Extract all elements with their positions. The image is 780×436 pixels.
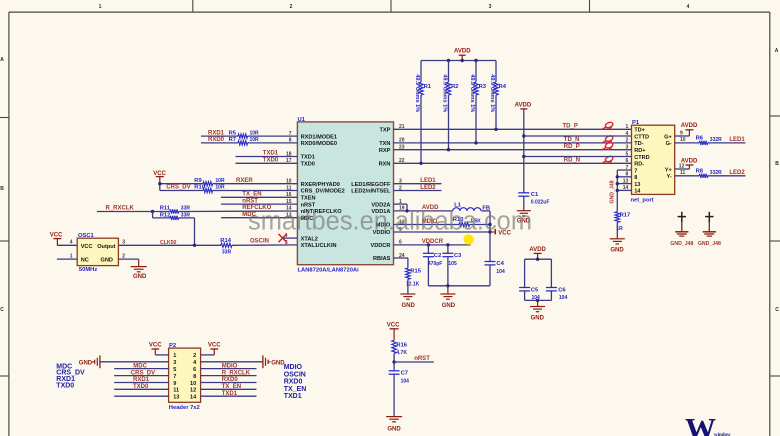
power AVDD at P1 pin9 bbox=[681, 123, 698, 136]
resistor R9 bbox=[203, 182, 213, 186]
label RXD0 at P2 bbox=[222, 377, 239, 383]
L1 value FB bbox=[482, 206, 490, 212]
svg-text:50MHz: 50MHz bbox=[79, 267, 97, 273]
svg-text:13: 13 bbox=[634, 182, 640, 188]
wire R17 to gnd bbox=[616, 222, 618, 238]
border column ticks bbox=[193, 0, 590, 12]
junction shield a bbox=[616, 175, 619, 178]
svg-text:R17: R17 bbox=[620, 212, 631, 218]
P1 left pin names bbox=[634, 128, 650, 195]
wire TXD1 bbox=[236, 156, 298, 158]
ground under R17 bbox=[610, 239, 625, 254]
svg-text:RXD1/MODE1: RXD1/MODE1 bbox=[301, 134, 337, 140]
wire pin9 stub bbox=[675, 135, 690, 137]
svg-text:14: 14 bbox=[634, 189, 641, 195]
junction R2-RXP bbox=[447, 148, 450, 151]
R8 value 332R bbox=[710, 170, 722, 176]
svg-text:470pF: 470pF bbox=[428, 261, 442, 267]
junction CTTD bbox=[522, 134, 525, 137]
svg-text:Output: Output bbox=[97, 244, 115, 250]
svg-text:W: W bbox=[685, 411, 716, 436]
R10 value 10R bbox=[215, 185, 225, 191]
svg-text:P1: P1 bbox=[632, 120, 640, 126]
label MDC bbox=[242, 212, 256, 218]
R14 value 33R bbox=[222, 250, 232, 256]
svg-text:OSCIN: OSCIN bbox=[250, 239, 269, 245]
wire P2 pin14 bbox=[201, 395, 257, 397]
svg-text:6: 6 bbox=[626, 158, 629, 164]
label R_RXCLK bbox=[106, 206, 135, 212]
svg-text:332R: 332R bbox=[710, 170, 722, 176]
ground at OSC1 bbox=[131, 267, 147, 281]
label TD_P bbox=[563, 124, 578, 130]
junction rail a bbox=[447, 59, 450, 62]
svg-text:1: 1 bbox=[626, 124, 629, 130]
R7 designator bbox=[229, 137, 236, 143]
wire TX_EN bbox=[221, 196, 297, 198]
wire R15 to gnd bbox=[407, 279, 409, 294]
R2 designator bbox=[451, 84, 458, 90]
wire REFCLKO with R11 gap bbox=[153, 210, 298, 213]
power AVDD top rail bbox=[454, 49, 471, 61]
resistor R12 bbox=[170, 216, 179, 220]
wire cap ground rail bbox=[428, 285, 490, 287]
ground left of P2 bbox=[79, 355, 100, 368]
R6 designator bbox=[696, 136, 704, 142]
svg-text:49.9 Ohms 1%: 49.9 Ohms 1% bbox=[442, 74, 448, 112]
svg-text:GND_J48: GND_J48 bbox=[609, 180, 615, 203]
svg-text:R16: R16 bbox=[396, 343, 407, 349]
wire TXN to TD_N bbox=[394, 142, 632, 144]
R13 designator bbox=[453, 217, 464, 223]
svg-text:R7: R7 bbox=[229, 137, 236, 143]
svg-text:GND: GND bbox=[610, 248, 624, 254]
svg-text:R_RXCLK: R_RXCLK bbox=[222, 370, 251, 376]
wire RXER pullup bbox=[160, 183, 298, 185]
svg-text:5: 5 bbox=[173, 367, 176, 373]
svg-text:VDDCR: VDDCR bbox=[422, 239, 444, 245]
wire LED2 stub bbox=[394, 190, 442, 192]
junction R4-TXP bbox=[494, 128, 497, 131]
svg-text:1: 1 bbox=[99, 4, 102, 10]
wire OSC1 pin4 bbox=[57, 244, 77, 246]
wire OSCIN into XTAL1 bbox=[232, 244, 298, 246]
resistor R7 bbox=[238, 141, 248, 145]
wire RBIAS bbox=[394, 258, 408, 268]
label MDIO at P2 bbox=[222, 363, 238, 369]
label nRST net bbox=[414, 356, 430, 362]
C3 designator bbox=[454, 253, 462, 259]
resistor R1 bbox=[419, 61, 424, 164]
svg-text:Y-: Y- bbox=[667, 174, 672, 180]
wire RXD0 with series resistor gap bbox=[201, 142, 297, 144]
svg-text:TXD0: TXD0 bbox=[56, 383, 74, 390]
label RD_P bbox=[564, 144, 580, 150]
wire TXD0 bbox=[236, 162, 298, 164]
wire center tap vertical bbox=[523, 136, 525, 193]
capacitor C1 bbox=[518, 193, 529, 196]
svg-text:2: 2 bbox=[122, 253, 125, 259]
svg-text:VCC: VCC bbox=[149, 343, 162, 349]
wire LED1 stub bbox=[394, 183, 442, 185]
wire P2 pin9 bbox=[114, 382, 168, 384]
svg-text:RXER/PHYAD0: RXER/PHYAD0 bbox=[301, 182, 340, 188]
wire C1 to gnd bbox=[523, 196, 525, 210]
svg-text:AVDD: AVDD bbox=[681, 123, 698, 129]
svg-text:3: 3 bbox=[173, 360, 176, 366]
ferrite loop on TD_P bbox=[602, 121, 614, 129]
wire L1 to VCC node bbox=[482, 211, 491, 232]
capacitor C6 bbox=[546, 259, 557, 300]
svg-text:C4: C4 bbox=[496, 261, 504, 267]
wire CLK50 from OSC output bbox=[118, 244, 220, 246]
svg-text:49.9 Ohms 1%: 49.9 Ohms 1% bbox=[414, 74, 420, 112]
ground under C7 bbox=[386, 417, 402, 433]
svg-text:10: 10 bbox=[190, 381, 196, 387]
resistor R11 bbox=[170, 209, 179, 213]
power AVDD at P1 pin12 bbox=[681, 158, 698, 169]
svg-text:8: 8 bbox=[193, 374, 196, 380]
P1 left pin numbers bbox=[623, 124, 629, 191]
svg-text:RXP: RXP bbox=[379, 148, 391, 154]
wire R12 down to clock net bbox=[194, 218, 196, 245]
svg-text:2: 2 bbox=[290, 4, 293, 10]
watermark smartbes bbox=[248, 207, 532, 235]
label RD_N bbox=[564, 158, 580, 164]
svg-text:6: 6 bbox=[193, 367, 196, 373]
C4 designator bbox=[496, 261, 504, 267]
wire MDC stub bbox=[221, 217, 297, 219]
svg-text:TXD0: TXD0 bbox=[301, 162, 315, 168]
resistor R10 bbox=[203, 188, 213, 192]
svg-text:NC: NC bbox=[81, 257, 89, 263]
junction clk node bbox=[193, 244, 196, 247]
R11 value 33R bbox=[181, 206, 191, 212]
R11 designator bbox=[160, 206, 171, 212]
svg-text:4.7K: 4.7K bbox=[396, 350, 407, 356]
junction CTRD bbox=[522, 155, 525, 158]
C5 value 104 bbox=[532, 295, 541, 301]
ferrite loop on TD_N bbox=[602, 135, 614, 143]
svg-text:GND: GND bbox=[101, 257, 113, 263]
svg-text:VDDCR: VDDCR bbox=[371, 243, 391, 249]
wire TXP to TD_P bbox=[394, 128, 632, 130]
wire OSC1 pin2 to gnd bbox=[118, 259, 138, 266]
svg-text:XTAL2: XTAL2 bbox=[301, 236, 318, 242]
R2 value 49.9 Ohms 1% bbox=[442, 74, 448, 112]
svg-text:TD-: TD- bbox=[634, 141, 643, 147]
label MDC at P2 bbox=[133, 363, 147, 369]
svg-text:LED2/nINTSEL: LED2/nINTSEL bbox=[351, 189, 391, 195]
C2 value 470pF bbox=[428, 261, 442, 267]
U1 right pin names bbox=[351, 128, 391, 263]
svg-text:smartbes.en.alibaba.com: smartbes.en.alibaba.com bbox=[248, 207, 532, 235]
svg-text:LAN8720A/LAN8720Ai: LAN8720A/LAN8720Ai bbox=[298, 268, 360, 274]
junction avdd gnd rail bbox=[536, 299, 539, 302]
svg-text:G+: G+ bbox=[664, 134, 672, 140]
svg-text:TXD0: TXD0 bbox=[263, 158, 279, 164]
label TX_EN at P2 bbox=[222, 384, 241, 390]
wire P2 pin10 bbox=[201, 382, 257, 384]
svg-text:C5: C5 bbox=[531, 287, 539, 293]
svg-text:LED2: LED2 bbox=[420, 185, 436, 191]
U1 left pin numbers bbox=[285, 131, 292, 246]
power VCC bar at VDDIO bbox=[490, 229, 512, 236]
node list right of header bbox=[284, 364, 307, 400]
capacitor C3 bbox=[442, 245, 453, 286]
wire AVDD cap rail top bbox=[525, 258, 552, 260]
C7 designator bbox=[401, 370, 408, 376]
OSC1 pin names bbox=[81, 244, 116, 263]
svg-text:CRS_DV: CRS_DV bbox=[131, 370, 155, 376]
svg-text:GND_J48: GND_J48 bbox=[698, 241, 721, 247]
capacitor C4 bbox=[485, 232, 496, 286]
label TX_EN bbox=[242, 192, 261, 198]
resistor R14 bbox=[221, 243, 232, 247]
wire P2 pin2 bbox=[201, 354, 215, 356]
OSC1 pin4 number bbox=[70, 240, 73, 246]
svg-text:14: 14 bbox=[190, 395, 197, 401]
svg-text:GND: GND bbox=[402, 303, 416, 309]
capacitor C2 bbox=[423, 245, 434, 286]
svg-text:Y+: Y+ bbox=[665, 167, 673, 173]
resistor R16 bbox=[392, 340, 397, 353]
R6 value 332R bbox=[710, 137, 722, 143]
OSC1 designator bbox=[78, 233, 95, 239]
svg-text:R15: R15 bbox=[410, 268, 421, 274]
svg-text:R11: R11 bbox=[160, 206, 171, 212]
svg-text:R9: R9 bbox=[194, 178, 202, 184]
label R_RXCLK at P2 bbox=[222, 370, 251, 376]
wire OSC1 pin1 bbox=[57, 258, 77, 260]
power VCC at P2 pin2 bbox=[208, 343, 221, 355]
wire P2 pin12 bbox=[201, 388, 257, 390]
wire nRST out bbox=[394, 361, 434, 363]
svg-text:C3: C3 bbox=[454, 253, 462, 259]
svg-text:R14: R14 bbox=[220, 238, 231, 244]
wire P2 pin13 bbox=[114, 395, 168, 397]
svg-text:R2: R2 bbox=[451, 84, 458, 90]
P1 designator bbox=[632, 120, 640, 126]
svg-text:GND: GND bbox=[387, 426, 401, 432]
R1 value 49.9 Ohms 1% bbox=[414, 74, 420, 112]
svg-text:OSC1: OSC1 bbox=[78, 233, 95, 239]
wire VDDCR bbox=[394, 244, 471, 246]
resistor R17 bbox=[615, 212, 620, 223]
svg-text:MDIO: MDIO bbox=[284, 364, 303, 371]
svg-text:AVDD: AVDD bbox=[681, 158, 698, 164]
svg-text:AVDD: AVDD bbox=[515, 102, 532, 108]
label CRS_DV bbox=[166, 185, 190, 191]
svg-text:TXD0: TXD0 bbox=[133, 384, 149, 390]
svg-text:9: 9 bbox=[173, 381, 176, 387]
svg-text:MDIO: MDIO bbox=[222, 363, 238, 369]
junction C2 tap bbox=[427, 243, 430, 246]
junction R_RXCLK node bbox=[151, 210, 154, 213]
svg-text:CRS_DV/MODE2: CRS_DV/MODE2 bbox=[301, 189, 345, 195]
ground under C2 C3 bbox=[440, 294, 455, 309]
svg-text:R_RXCLK: R_RXCLK bbox=[106, 206, 135, 212]
svg-text:nRST: nRST bbox=[414, 356, 430, 362]
label OSCIN bbox=[250, 239, 269, 245]
C6 value 104 bbox=[559, 295, 568, 301]
resistor R6 bbox=[699, 141, 708, 145]
svg-text:LED1/REGOFF: LED1/REGOFF bbox=[351, 182, 391, 188]
svg-text:12: 12 bbox=[190, 388, 196, 394]
U1 designator bbox=[298, 117, 306, 123]
wire gnd stem bbox=[447, 286, 449, 294]
R9 designator bbox=[194, 178, 202, 184]
label REFCLKO bbox=[242, 205, 271, 211]
R17 value 1R bbox=[616, 226, 623, 232]
C1 value bbox=[531, 200, 550, 206]
svg-text:TD+: TD+ bbox=[634, 128, 645, 134]
connector P2 body bbox=[169, 348, 201, 402]
R1 designator bbox=[424, 84, 432, 90]
P1 part name net_port bbox=[631, 198, 654, 204]
wire VDD1A to L1 bbox=[394, 210, 453, 212]
label LED2 bbox=[420, 185, 436, 191]
wire RXN to RD_N bbox=[394, 162, 632, 164]
svg-text:7: 7 bbox=[634, 168, 637, 174]
wire P2 pin1 bbox=[155, 354, 168, 356]
R15 value 12.1K bbox=[406, 282, 420, 288]
svg-text:R4: R4 bbox=[499, 84, 507, 90]
R5 value 10R bbox=[250, 130, 260, 136]
svg-text:G-: G- bbox=[666, 141, 672, 147]
svg-text:R1: R1 bbox=[424, 84, 432, 90]
svg-text:AVDD: AVDD bbox=[529, 247, 546, 253]
svg-text:10R: 10R bbox=[215, 178, 225, 184]
power VCC at OSC1 bbox=[50, 233, 63, 246]
chassis ground GND_J48 right bbox=[698, 212, 721, 247]
svg-text:P2: P2 bbox=[169, 343, 176, 349]
P1 right pin numbers bbox=[679, 130, 686, 176]
svg-text:5: 5 bbox=[626, 151, 629, 157]
power VCC at P2 pin1 bbox=[149, 343, 162, 355]
OSC1 pin3 number bbox=[122, 240, 125, 246]
OSC1 value 50MHz bbox=[79, 267, 97, 273]
U1 part name bbox=[298, 268, 360, 274]
svg-text:C: C bbox=[775, 307, 779, 313]
P2 part name bbox=[169, 405, 200, 411]
svg-text:4: 4 bbox=[70, 240, 73, 246]
svg-text:C: C bbox=[0, 307, 4, 313]
svg-text:GND_J48: GND_J48 bbox=[670, 241, 693, 247]
svg-text:10R: 10R bbox=[215, 185, 225, 191]
power VCC for straps bbox=[153, 171, 166, 184]
svg-text:RXD0: RXD0 bbox=[284, 378, 303, 385]
svg-text:1: 1 bbox=[173, 353, 176, 359]
resistor R3 bbox=[474, 61, 479, 143]
wire P2 pin7 bbox=[114, 375, 168, 377]
label RXD1 at P2 bbox=[133, 377, 150, 383]
wire P2 pin3 to gnd bbox=[100, 361, 169, 363]
svg-text:33R: 33R bbox=[181, 206, 191, 212]
svg-text:7: 7 bbox=[173, 374, 176, 380]
svg-text:33R: 33R bbox=[181, 212, 191, 218]
svg-text:Header 7x2: Header 7x2 bbox=[169, 405, 200, 411]
svg-text:TX_EN: TX_EN bbox=[242, 192, 261, 198]
svg-text:11: 11 bbox=[173, 388, 179, 394]
power AVDD filter bbox=[529, 247, 546, 259]
OSC1 pin2 number bbox=[122, 253, 125, 259]
R7 value 10R bbox=[250, 137, 260, 143]
R8 designator bbox=[696, 169, 704, 175]
svg-text:C7: C7 bbox=[401, 370, 408, 376]
svg-text:CRS_DV: CRS_DV bbox=[166, 185, 190, 191]
label TXD1 at P2 bbox=[222, 391, 238, 397]
wire R_RXCLK bbox=[97, 211, 153, 213]
wire nRST stub bbox=[221, 203, 297, 205]
svg-text:0.022uF: 0.022uF bbox=[531, 200, 550, 206]
P2 designator bbox=[169, 343, 176, 349]
label CLK50 bbox=[160, 240, 177, 246]
ground under R15 bbox=[400, 294, 415, 309]
ground under C1 bbox=[517, 211, 531, 225]
label TXD0 at P2 bbox=[133, 384, 149, 390]
svg-text:2: 2 bbox=[626, 138, 629, 144]
label TXD0 bbox=[263, 158, 279, 164]
svg-text:TXEN: TXEN bbox=[301, 196, 316, 202]
R17 designator bbox=[620, 212, 631, 218]
wire node drop to R12 bbox=[152, 212, 154, 218]
svg-text:CLK50: CLK50 bbox=[160, 240, 177, 246]
junction avdd rail bbox=[536, 258, 539, 261]
svg-text:U1: U1 bbox=[298, 117, 306, 123]
ferrite loop on RD_N bbox=[602, 155, 614, 163]
ferrite loop on RD_P bbox=[602, 142, 614, 150]
svg-text:R8: R8 bbox=[696, 169, 704, 175]
wire CTTD bbox=[524, 135, 632, 137]
junction VDDIO-VCC bbox=[488, 230, 491, 233]
svg-text:TXD1: TXD1 bbox=[222, 391, 238, 397]
svg-text:LED1: LED1 bbox=[729, 137, 745, 143]
ground right of P2 bbox=[263, 355, 285, 368]
R14 designator bbox=[220, 238, 231, 244]
svg-text:RXN: RXN bbox=[379, 162, 391, 168]
label AVDD on wire bbox=[422, 205, 439, 211]
wire P2 pin4 to gnd bbox=[201, 361, 263, 363]
label LED2 right bbox=[729, 170, 745, 176]
svg-text:VCC: VCC bbox=[387, 322, 400, 328]
svg-text:33R: 33R bbox=[222, 250, 232, 256]
wire VDDIO row bbox=[394, 231, 491, 233]
junction shield b bbox=[616, 182, 619, 185]
P2 pin numbers bbox=[173, 353, 197, 400]
wire LED2 from Y- bbox=[675, 175, 746, 177]
svg-text:RXD0: RXD0 bbox=[208, 137, 225, 143]
P1 right pin names bbox=[664, 134, 672, 180]
wire MDIO pullup row bbox=[394, 224, 491, 226]
border zone letters bbox=[0, 48, 779, 313]
svg-text:RD_P: RD_P bbox=[564, 144, 580, 150]
svg-text:3: 3 bbox=[489, 4, 492, 10]
svg-text:A: A bbox=[775, 48, 779, 54]
junction VDD node bbox=[405, 209, 408, 212]
label GND_J48 vertical bbox=[609, 180, 615, 203]
svg-text:104: 104 bbox=[559, 295, 568, 301]
svg-text:2: 2 bbox=[193, 353, 196, 359]
op-amp U1 body (LAN8720A PHY) bbox=[297, 122, 393, 265]
svg-text:RXD1: RXD1 bbox=[208, 130, 225, 136]
U1 right pin numbers bbox=[399, 124, 405, 259]
svg-text:TX_EN: TX_EN bbox=[222, 384, 241, 390]
wire P2 pin5 bbox=[114, 368, 168, 370]
svg-text:RD_N: RD_N bbox=[564, 158, 580, 164]
svg-text:LED2: LED2 bbox=[729, 170, 745, 176]
resistor R8 bbox=[699, 174, 708, 178]
